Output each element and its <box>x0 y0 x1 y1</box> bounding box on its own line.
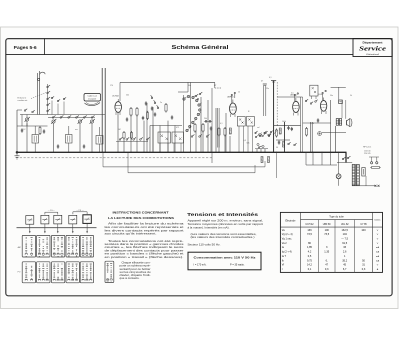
svg-text:mA: mA <box>376 255 380 258</box>
svg-text:50n: 50n <box>330 95 333 97</box>
ps wire x322 <box>321 152 323 165</box>
commutation grid PO2 <box>37 262 50 283</box>
mains cord <box>369 157 379 162</box>
left extra cap a <box>21 128 23 132</box>
svg-text:25n: 25n <box>266 88 269 90</box>
bracket CG <box>45 210 58 214</box>
svg-text:0,5: 0,5 <box>308 254 312 258</box>
wire HT top rail <box>120 82 222 88</box>
svg-text:Appareil réglé sur 200 m. envi: Appareil réglé sur 200 m. environ, sans … <box>188 219 264 223</box>
band switch chain S1 <box>47 84 50 115</box>
cathode marker <box>318 132 322 136</box>
socket contacts under AF box <box>305 99 317 104</box>
series caps mid <box>204 120 212 122</box>
grid resistor R10 <box>305 127 307 137</box>
left input wire <box>16 110 22 153</box>
tuning capacitor CV4 <box>90 119 95 124</box>
link wire y123 <box>303 122 331 124</box>
svg-text:40µ: 40µ <box>188 85 191 87</box>
screen resistor R1 <box>130 107 132 117</box>
svg-text:mA: mA <box>376 259 380 262</box>
wires under IF2 <box>239 126 253 152</box>
left low rail <box>17 125 48 127</box>
svg-text:1k: 1k <box>238 92 240 94</box>
main chassis bus <box>16 151 347 153</box>
wire verticals under IF1 <box>160 143 181 152</box>
bracket OC <box>73 210 87 214</box>
commutation grid AM1 <box>22 235 35 257</box>
contact rail <box>48 116 95 119</box>
dashed return line <box>16 157 212 159</box>
svg-text:Vf: Vf <box>282 264 285 267</box>
instructions paragraph 1 <box>105 222 185 236</box>
mains terminal A <box>371 162 373 164</box>
commutation grid PO4 <box>66 262 79 283</box>
rotary wafer switch <box>178 82 202 133</box>
extra contact ladder mid <box>151 95 159 108</box>
tube table header text <box>285 216 380 226</box>
svg-text:Vg 1 osc.: Vg 1 osc. <box>282 238 292 241</box>
return line 3 <box>128 172 255 174</box>
svg-text:0,3: 0,3 <box>362 267 366 271</box>
wire drops tuning row <box>27 123 92 152</box>
header cell divider pages <box>44 39 46 55</box>
svg-text:0,1: 0,1 <box>275 130 278 132</box>
svg-text:mA: mA <box>376 251 380 254</box>
tuning capacitor CV1 <box>25 115 30 127</box>
cathode resistor R3 <box>123 131 125 140</box>
mid left caps <box>145 101 153 110</box>
wire drop to tube U1 <box>119 82 121 101</box>
grid wire pair b <box>311 122 313 152</box>
switch position boxes row <box>26 215 92 228</box>
grid cap contacts U2 <box>231 92 235 103</box>
commutation grid AM5 <box>80 235 93 257</box>
svg-text:UBF 80: UBF 80 <box>323 224 332 226</box>
detector diode cluster <box>255 131 271 148</box>
svg-text:incorporé: incorporé <box>88 98 96 101</box>
svg-text:73,5: 73,5 <box>324 232 330 236</box>
wire drop x190 <box>189 82 191 152</box>
osc grid resistor R5 <box>165 103 167 113</box>
svg-text:136: 136 <box>307 228 312 232</box>
tube U4 UL41 <box>320 98 326 115</box>
tall capacitor bar <box>217 108 219 148</box>
svg-text:47: 47 <box>261 81 263 83</box>
svg-text:100k: 100k <box>282 121 286 123</box>
oscillator coil L2 <box>66 126 73 152</box>
svg-text:Tensions et Intensités: Tensions et Intensités <box>187 212 259 217</box>
AVC contacts <box>191 134 209 137</box>
svg-text:Électrode: Électrode <box>285 219 296 222</box>
svg-text:Cadre à air: Cadre à air <box>88 95 98 98</box>
extra commutation grid <box>105 261 114 282</box>
svg-text:50k: 50k <box>126 95 129 97</box>
svg-text:en position « travail » (flèch: en position « travail » (flèche dessous)… <box>105 255 184 259</box>
svg-text:à la masse). Intensités (en mA: à la masse). Intensités (en mA). <box>188 225 230 229</box>
electrolytic cap C7 <box>339 100 343 104</box>
AF lower cap <box>278 140 280 144</box>
svg-text:LA LECTURE DES COMMUTATIONS: LA LECTURE DES COMMUTATIONS <box>108 216 174 220</box>
mains terminal B <box>376 162 378 164</box>
cadre antenna box <box>84 94 101 106</box>
left extra contacts <box>24 109 34 113</box>
IF transformer IF1b <box>172 132 184 143</box>
svg-text:INSTRUCTIONS CONCERNANT: INSTRUCTIONS CONCERNANT <box>113 210 169 214</box>
dashed shield line <box>276 82 278 126</box>
svg-text:0,5: 0,5 <box>291 93 294 95</box>
IF transformer IF1 <box>158 132 171 143</box>
svg-text:91,5: 91,5 <box>342 241 348 245</box>
AF lower resistor <box>283 142 285 148</box>
svg-text:170: 170 <box>110 85 113 87</box>
svg-text:Schéma Général: Schéma Général <box>172 45 230 51</box>
svg-text:Pages 5-6: Pages 5-6 <box>14 45 38 50</box>
extra contacts left of U2 <box>195 92 202 100</box>
power transformer T3 secondary <box>357 165 360 186</box>
tensions notes <box>188 219 264 247</box>
transformer bottom wire <box>352 176 376 186</box>
AF lower rule <box>276 139 290 141</box>
AF lower contacts <box>275 130 296 149</box>
svg-text:50k: 50k <box>247 143 250 145</box>
decoupling cap C1 <box>126 117 128 121</box>
departement service box <box>353 39 392 57</box>
svg-text:osc: osc <box>75 129 78 131</box>
svg-text:— P.U. —: — P.U. — <box>76 210 84 212</box>
chassis ground left <box>15 152 20 159</box>
tube table header rules <box>280 220 382 228</box>
svg-text:1,85: 1,85 <box>307 245 313 249</box>
wire top rail oscillator <box>20 114 105 116</box>
svg-text:162,5: 162,5 <box>342 228 349 232</box>
ps wire x306 <box>305 152 307 165</box>
svg-text:P = 35 watts.: P = 35 watts. <box>230 264 245 267</box>
wire y97 link <box>277 96 302 98</box>
gang shield line right <box>104 68 106 152</box>
tone cap C6 <box>317 118 319 122</box>
tube table outer border <box>280 212 382 272</box>
svg-text:Tensions moyennes (données en: Tensions moyennes (données en volts par … <box>188 222 264 226</box>
svg-text:0,1: 0,1 <box>220 123 223 125</box>
svg-text:100: 100 <box>325 228 330 232</box>
tube table data rows <box>282 228 380 271</box>
trimmer capacitor <box>83 144 85 148</box>
AF resistor Ra <box>279 128 281 134</box>
screen resistor R2 <box>136 107 138 117</box>
IF transformer IF2 <box>237 117 245 127</box>
instructions paragraph 2 <box>105 239 185 259</box>
svg-text:9,75: 9,75 <box>307 258 313 262</box>
anode resistor R7 <box>202 123 204 133</box>
svg-text:I = 170 mA,: I = 170 mA, <box>194 264 207 267</box>
svg-text:Type du tube: Type du tube <box>329 216 344 219</box>
osc cap C3 <box>154 112 156 116</box>
svg-text:2,6: 2,6 <box>343 250 347 254</box>
svg-text:6,7: 6,7 <box>343 267 347 271</box>
tube table column rules <box>301 212 373 272</box>
coupling cap C5 <box>210 126 212 130</box>
commutation grid AM4 <box>66 235 79 257</box>
svg-text:0,1: 0,1 <box>269 77 272 79</box>
svg-text:0,5: 0,5 <box>244 140 247 142</box>
rectifier block <box>362 168 365 177</box>
svg-text:73,5: 73,5 <box>307 232 313 236</box>
mains switch <box>342 156 350 159</box>
loudspeaker LS1 <box>347 119 352 127</box>
commutation grid PO1 <box>22 262 35 283</box>
header row bottom rule <box>6 54 353 56</box>
svg-text:que à contacts.: que à contacts. <box>120 276 140 280</box>
wire drop x330 <box>330 100 332 152</box>
svg-text:20k: 20k <box>204 118 207 120</box>
svg-text:UCL 82: UCL 82 <box>341 224 349 226</box>
svg-text:6,: 6, <box>326 258 328 262</box>
bus junction dots <box>26 152 339 153</box>
svg-text:UCH 42: UCH 42 <box>305 224 314 226</box>
gang shield line left <box>101 68 103 152</box>
commutation grid PO3 <box>51 262 64 283</box>
svg-text:50: 50 <box>276 147 278 149</box>
svg-text:UL41: UL41 <box>319 94 325 96</box>
wire drop x302 <box>302 97 304 152</box>
switch rail arrows <box>29 228 88 234</box>
svg-text:0,5M: 0,5M <box>310 123 314 125</box>
svg-text:AM: AM <box>18 246 21 249</box>
antenna input label <box>18 93 47 102</box>
svg-text:220 245: 220 245 <box>364 153 371 155</box>
upper left small parts <box>51 97 66 115</box>
svg-text:0,3: 0,3 <box>325 267 329 271</box>
grid cap contacts U4 <box>322 90 326 100</box>
svg-text:104: 104 <box>343 232 348 236</box>
IF transformer IF2b <box>247 117 255 127</box>
wire drop below bus x276 <box>276 152 278 178</box>
left wire x22 <box>21 115 23 127</box>
tube U1 UCH42 <box>115 99 122 115</box>
fuse marks <box>375 185 380 187</box>
volume potentiometer <box>273 129 278 138</box>
wire drops to bus group A <box>118 97 265 152</box>
voltage selector labels <box>364 151 371 156</box>
svg-text:mA: mA <box>376 246 380 249</box>
wire top output <box>331 87 346 100</box>
svg-text:Ig (2 + 4): Ig (2 + 4) <box>282 251 292 254</box>
wire speaker feed <box>322 132 346 134</box>
pilot lamp <box>336 152 341 186</box>
bias resistor Rk2 <box>268 157 270 163</box>
bias resistor Rk1 <box>261 157 263 163</box>
svg-text:UBF80: UBF80 <box>227 97 234 99</box>
cathode resistor R4 <box>130 131 132 140</box>
svg-text:472: 472 <box>176 127 179 129</box>
ps wire x313 <box>312 152 314 165</box>
svg-text:aux circuits qu'ils intéressen: aux circuits qu'ils intéressent. <box>105 232 157 236</box>
commutation grid AM2 <box>37 235 50 257</box>
consommation box <box>188 252 261 270</box>
power transformer T3 primary <box>352 165 355 186</box>
shield cap terminal <box>269 77 276 82</box>
screen resistor R9 <box>224 127 226 137</box>
svg-text:35,2: 35,2 <box>342 258 348 262</box>
mid left verticals <box>147 103 153 152</box>
AF coupling caps <box>287 126 293 131</box>
padder capacitor <box>57 144 59 148</box>
tuning capacitor CV2 <box>51 119 56 124</box>
detector input pair <box>261 81 267 117</box>
left extra resistor <box>39 126 41 135</box>
schematic frame border <box>6 39 392 296</box>
svg-text:Ia T: Ia T <box>282 255 287 258</box>
transformer core <box>354 164 357 186</box>
ps wire x330 <box>330 152 332 165</box>
mains resistor <box>370 167 381 169</box>
tube U2 UBF80 <box>230 100 237 118</box>
mid rail wire <box>150 125 182 127</box>
svg-text:Général: Général <box>366 53 380 56</box>
mid left resistor <box>147 111 149 120</box>
decoupling cap C2 <box>142 116 144 120</box>
grid wire pair a <box>310 122 312 152</box>
anode resistor R6 <box>194 123 196 133</box>
wire x335 <box>334 126 336 152</box>
svg-text:Secteur 110 volts 50 Hz.: Secteur 110 volts 50 Hz. <box>188 243 221 247</box>
osc cap C4 <box>171 115 173 119</box>
svg-text:UBC41: UBC41 <box>290 95 298 97</box>
left extra cap b <box>43 129 45 133</box>
svg-text:Consommation avec 110 V 50 Hz: Consommation avec 110 V 50 Hz <box>194 257 257 260</box>
grid contacts row <box>116 137 150 141</box>
instructions paragraph 3 <box>120 261 152 281</box>
mains feed wire <box>337 152 352 162</box>
svg-text:0,1: 0,1 <box>308 267 312 271</box>
ps link rail <box>306 164 337 166</box>
svg-text:UCH42: UCH42 <box>112 96 120 98</box>
svg-text:5k: 5k <box>350 95 352 97</box>
svg-text:UY 85: UY 85 <box>360 224 367 226</box>
svg-text:— CG —: — CG — <box>48 210 55 212</box>
svg-text:Service: Service <box>359 46 386 53</box>
grid cap contacts U3 <box>294 93 298 101</box>
svg-text:Unités: Unités <box>375 218 381 221</box>
wire drop x212 <box>211 88 213 163</box>
antenna <box>37 71 45 115</box>
svg-text:Va 2: Va 2 <box>282 242 287 245</box>
tuning capacitor CV3 <box>78 119 83 124</box>
hatched resistor mid <box>229 128 231 134</box>
oscillator coil L3 <box>96 127 103 152</box>
svg-text:0,1: 0,1 <box>146 111 149 113</box>
detector contact chain <box>244 130 274 144</box>
instructions heading <box>108 210 174 220</box>
AF transformer box <box>310 85 318 99</box>
svg-text:100: 100 <box>361 228 366 232</box>
svg-text:Vg (2 + 4): Vg (2 + 4) <box>282 233 293 236</box>
svg-text:cavalier ant.: cavalier ant. <box>18 99 29 102</box>
svg-text:— 7,5: — 7,5 <box>341 237 348 241</box>
svg-text:Département: Département <box>363 40 383 44</box>
commutation grid AM3 <box>51 235 64 257</box>
screen resistor R8 <box>218 127 220 137</box>
return line 2 <box>103 166 265 168</box>
output transformer T2 <box>336 100 346 125</box>
tube U3 UBC41 <box>293 98 300 116</box>
oscillator coil L1 <box>32 126 39 152</box>
AF divider wire <box>284 122 286 152</box>
svg-text:(les valeurs des intensités co: (les valeurs des intensités contractuell… <box>191 235 255 239</box>
AF section top rule <box>274 125 301 127</box>
return hooks <box>103 152 265 173</box>
svg-text:14,2: 14,2 <box>307 263 313 267</box>
shield partition wire <box>273 81 275 153</box>
commutation grid PO5 <box>80 262 93 283</box>
svg-text:HP 12cm: HP 12cm <box>363 147 372 149</box>
svg-text:2n: 2n <box>160 102 162 104</box>
svg-text:1,35: 1,35 <box>324 250 330 254</box>
component value labels <box>23 85 352 131</box>
wire drop x300 <box>300 97 302 152</box>
svg-text:4,2: 4,2 <box>308 250 312 254</box>
switch rail <box>17 227 97 229</box>
